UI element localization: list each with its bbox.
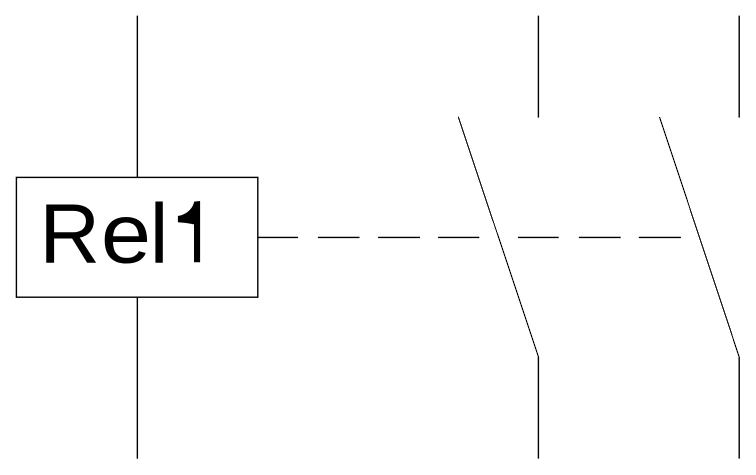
wire: mechanical link dash 7 (639, 236, 681, 238)
contact 1 blade (458, 117, 538, 357)
wire: mechanical link dash 1 (258, 236, 298, 238)
relay coil box Rel1 (16, 177, 257, 297)
wire: contact 1 top pin (537, 16, 539, 118)
wire: contact 2 top pin (738, 16, 740, 118)
label Rel1 (39, 186, 200, 280)
wire: mechanical link dash 3 (378, 236, 420, 238)
wire: contact 1 bottom pin (537, 357, 539, 459)
svg-text:R: R (39, 186, 100, 280)
wire: mechanical link dash 6 (579, 236, 621, 238)
wire: mechanical link dash 5 (518, 236, 559, 238)
wire: mechanical link dash 2 (318, 236, 360, 238)
wire: coil top pin (136, 16, 138, 178)
svg-text:l: l (150, 186, 169, 280)
contact 2 blade (660, 117, 740, 357)
wire: mechanical link dash 4 (438, 236, 479, 238)
wire: contact 2 bottom pin (738, 357, 740, 459)
svg-text:e: e (101, 187, 151, 280)
wire: coil bottom pin (136, 297, 138, 459)
